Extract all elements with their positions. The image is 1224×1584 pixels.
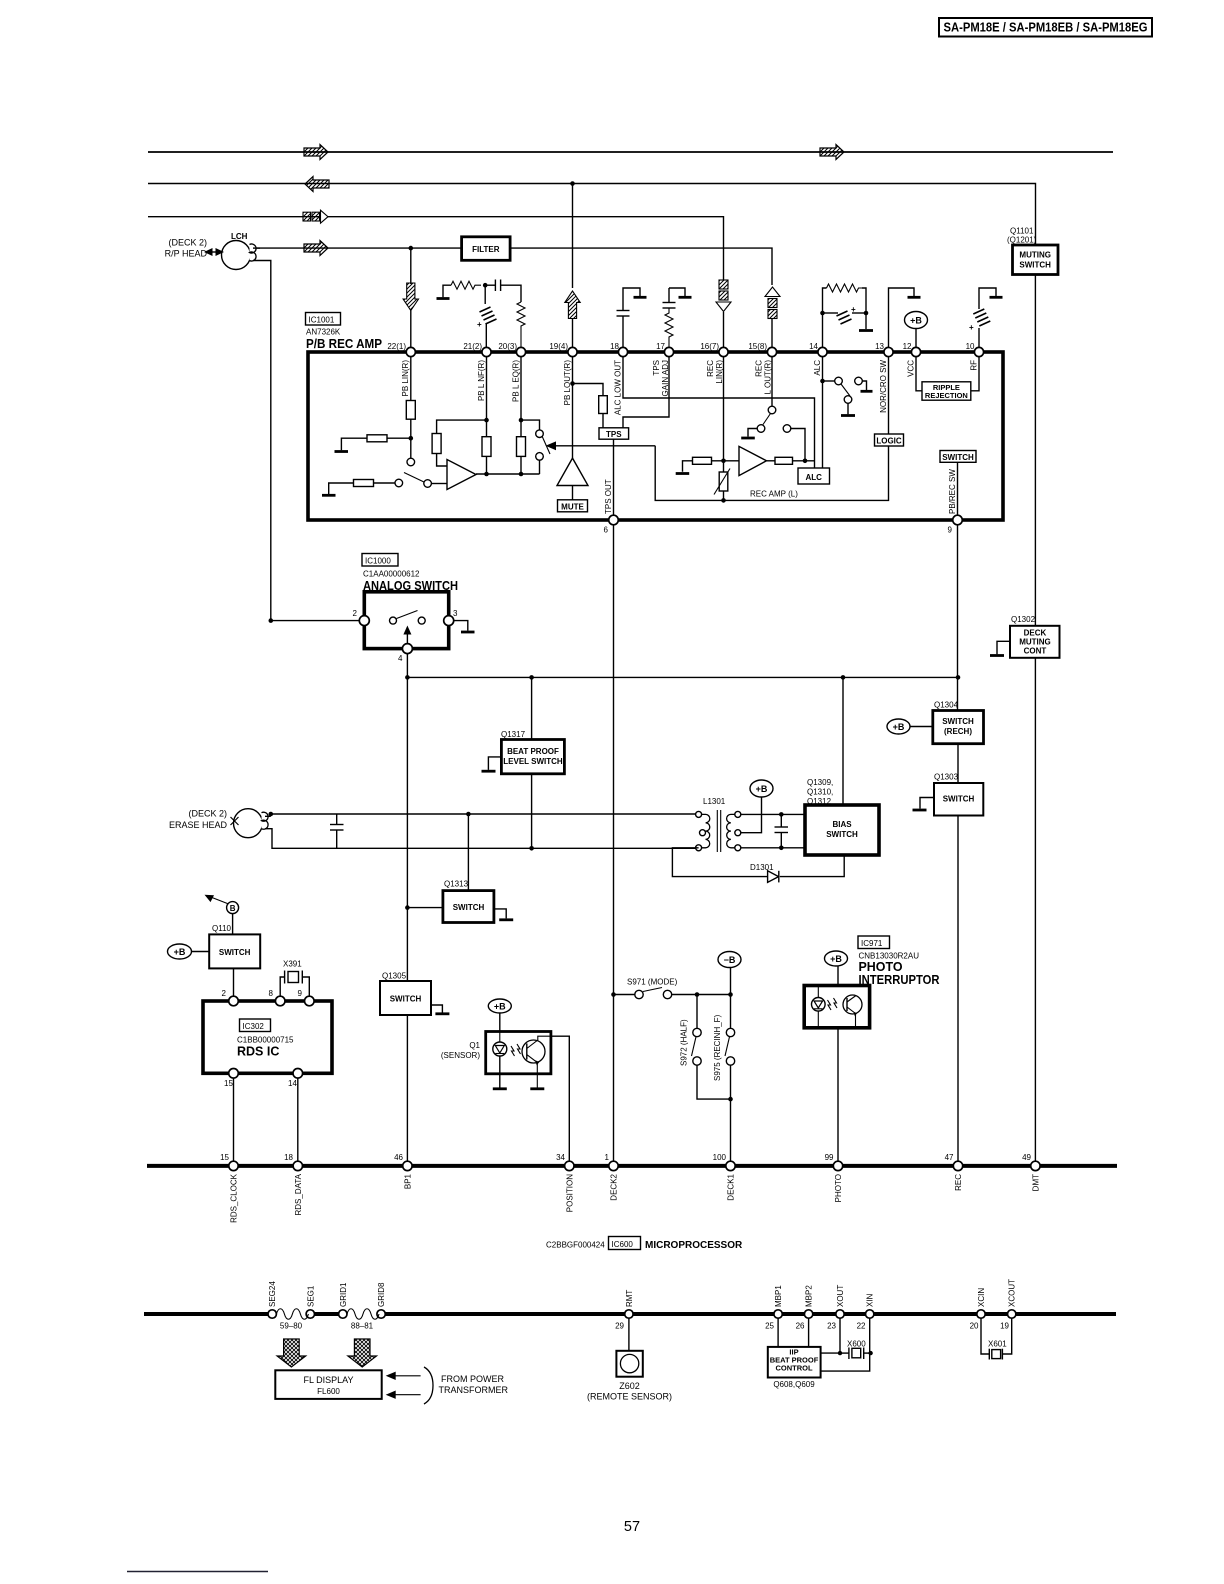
crystal X601 bbox=[981, 1318, 1012, 1359]
TPS control arrow bbox=[546, 441, 656, 450]
svg-text:2: 2 bbox=[353, 609, 358, 618]
svg-text:+B: +B bbox=[910, 316, 922, 326]
resistor to ground row2 bbox=[322, 480, 395, 496]
svg-text:LIN(R): LIN(R) bbox=[715, 360, 724, 384]
transistor Q1305 SWITCH bbox=[380, 972, 431, 1016]
svg-text:X600: X600 bbox=[847, 1340, 866, 1349]
node on line D at pin 22(1) branch bbox=[409, 246, 414, 251]
transistor Q110 SWITCH bbox=[209, 924, 260, 968]
IC1001 pin 19(4) bbox=[549, 342, 577, 357]
bus pin XCOUT 19 bbox=[1000, 1279, 1017, 1331]
model number box bbox=[939, 18, 1152, 37]
svg-text:(REMOTE SENSOR): (REMOTE SENSOR) bbox=[587, 1392, 672, 1402]
resistor (zigzag) above pin 21(2) bbox=[451, 281, 481, 289]
pin name REC LIN(R) bbox=[706, 360, 724, 384]
wire from line B down to pin 19(4) bbox=[572, 184, 574, 289]
FL display bus bbox=[144, 1312, 1116, 1316]
svg-text:4: 4 bbox=[398, 654, 403, 663]
IC1001 pin 6 bbox=[604, 515, 619, 534]
svg-text:+B: +B bbox=[893, 722, 905, 732]
resistor to ground REC in bbox=[676, 457, 739, 473]
transistor Q1317 BEAT PROOF LEVEL SWITCH bbox=[501, 730, 564, 774]
transistor Q1101 (Q1201) MUTING SWITCH bbox=[1007, 227, 1058, 275]
wire pin4 net down to Q1313 row bbox=[406, 677, 408, 981]
svg-text:D1301: D1301 bbox=[750, 863, 774, 872]
svg-text:C2BBGF000424: C2BBGF000424 bbox=[546, 1241, 605, 1250]
wire erase head top line bbox=[265, 814, 699, 816]
LED inside Q1 bbox=[493, 1032, 507, 1089]
svg-text:S972 (HALF): S972 (HALF) bbox=[680, 1019, 689, 1066]
wire pin2 to left rail bbox=[271, 620, 360, 622]
svg-text:PB LIN(R): PB LIN(R) bbox=[401, 360, 410, 397]
arrow power into FL display 1 bbox=[386, 1372, 421, 1380]
IC302 reference label bbox=[237, 1019, 294, 1059]
transistors Q1309/Q1310/Q1312 BIAS SWITCH box bbox=[805, 805, 879, 855]
svg-text:6: 6 bbox=[604, 526, 609, 535]
wire top bus line A bbox=[148, 151, 1113, 153]
resistor internal pin22 bbox=[406, 401, 415, 420]
svg-text:TPS: TPS bbox=[652, 360, 661, 376]
photo sensor Q1 box bbox=[486, 1032, 551, 1074]
svg-text:DECK: DECK bbox=[1024, 629, 1047, 638]
wire bottom loop via D1301 bbox=[672, 848, 844, 877]
svg-text:46: 46 bbox=[394, 1153, 403, 1162]
photo sensor Q1 labels bbox=[441, 1041, 481, 1060]
control stub Q1317 bbox=[482, 757, 502, 771]
svg-text:+: + bbox=[969, 323, 974, 332]
svg-text:TPS: TPS bbox=[606, 430, 622, 439]
resistor REC out bbox=[767, 457, 815, 464]
-B supply bbox=[718, 952, 741, 995]
hatched arrow down at pin 22(1) bbox=[403, 283, 418, 311]
node S972 rejoin bbox=[728, 1097, 733, 1102]
IC302 pin 9 bbox=[298, 989, 315, 1006]
arrow power into FL display 2 bbox=[386, 1391, 421, 1399]
phototransistor inside Q1 bbox=[522, 1036, 551, 1089]
svg-text:16(7): 16(7) bbox=[700, 342, 719, 351]
svg-text:FROM POWER: FROM POWER bbox=[441, 1374, 504, 1384]
svg-text:LEVEL SWITCH: LEVEL SWITCH bbox=[503, 757, 563, 766]
svg-text:Q608,Q609: Q608,Q609 bbox=[773, 1380, 815, 1389]
svg-text:L1301: L1301 bbox=[703, 797, 726, 806]
transformer L1301 bbox=[696, 810, 741, 852]
svg-text:BIAS: BIAS bbox=[832, 820, 852, 829]
svg-text:10: 10 bbox=[966, 342, 975, 351]
svg-text:SWITCH: SWITCH bbox=[390, 995, 422, 1004]
svg-text:X601: X601 bbox=[988, 1340, 1007, 1349]
op-amp U-a (PB amp) bbox=[447, 460, 476, 490]
svg-text:REC: REC bbox=[706, 360, 715, 377]
hatched arrow up at pin 15(8) bbox=[765, 287, 780, 347]
svg-text:RF: RF bbox=[970, 360, 979, 371]
wire MBP1 to beat proof box bbox=[777, 1318, 779, 1347]
svg-text:(DECK 2): (DECK 2) bbox=[188, 809, 227, 819]
RC loop at pin 14 bbox=[820, 284, 873, 347]
svg-text:9: 9 bbox=[948, 526, 953, 535]
node B with arrow bbox=[205, 895, 239, 914]
wire pin22 branch down with hatched arrow bbox=[410, 248, 412, 284]
IC1001 pin 16(7) bbox=[700, 342, 728, 357]
svg-text:8: 8 bbox=[269, 989, 274, 998]
FILTER box bbox=[462, 237, 511, 260]
bus pin 18 RDS_DATA bbox=[284, 1153, 303, 1216]
svg-text:R/P HEAD: R/P HEAD bbox=[165, 249, 208, 259]
svg-text:Q110: Q110 bbox=[212, 924, 232, 933]
arrow inside IC1000 from pin4 bbox=[403, 626, 411, 644]
resistor TPS feed bbox=[599, 396, 608, 414]
electrolytic cap at pin 21(2) bbox=[477, 285, 497, 347]
svg-text:BEAT PROOF: BEAT PROOF bbox=[507, 747, 559, 756]
svg-text:SA-PM18E / SA-PM18EB / SA-PM18: SA-PM18E / SA-PM18EB / SA-PM18EG bbox=[944, 21, 1148, 35]
node pin21 branch bbox=[484, 418, 489, 423]
svg-text:FL DISPLAY: FL DISPLAY bbox=[303, 1375, 353, 1385]
signal arrow on line C (boxes + open head) bbox=[303, 210, 328, 223]
footer rule bbox=[127, 1571, 268, 1573]
crystal X600 bbox=[840, 1318, 871, 1359]
IC1000 reference label bbox=[362, 554, 458, 594]
wire MBP2 to beat proof box bbox=[808, 1318, 810, 1347]
node output r2 bbox=[519, 472, 524, 477]
wire XIN down and into beat proof box bbox=[821, 1318, 870, 1371]
svg-text:12: 12 bbox=[903, 342, 912, 351]
svg-text:(Q1201): (Q1201) bbox=[1007, 236, 1037, 245]
bus pin XCIN 20 bbox=[970, 1288, 986, 1331]
switch contact row1 bbox=[407, 458, 415, 466]
IC1001 main box bbox=[308, 352, 1003, 520]
wire IC302 pin14 to bus bbox=[297, 1078, 299, 1161]
svg-text:RDS_CLOCK: RDS_CLOCK bbox=[230, 1173, 239, 1223]
svg-text:+: + bbox=[851, 305, 856, 314]
svg-text:TPS OUT: TPS OUT bbox=[604, 479, 613, 514]
signal arrow on line A left bbox=[304, 145, 328, 160]
IC302 pin 8 bbox=[269, 989, 285, 1006]
IC1001 pin 21(2) bbox=[463, 342, 491, 357]
wire pin 6 rail down to bus DECK2 bbox=[613, 525, 615, 1162]
ground hook at pin 13 bbox=[889, 288, 921, 347]
wire pin22 internal bbox=[410, 357, 412, 458]
resistor under pin20 bbox=[517, 420, 526, 474]
+B supply at IC971 bbox=[825, 951, 848, 986]
wire branch left to NF resistor bbox=[437, 420, 487, 466]
resistor (zigzag) above pin 20(3) bbox=[517, 302, 525, 347]
svg-text:34: 34 bbox=[556, 1153, 565, 1162]
svg-text:PB/REC SW: PB/REC SW bbox=[948, 469, 957, 514]
svg-text:Q1303: Q1303 bbox=[934, 773, 959, 782]
node beatproof/bottom line bbox=[529, 846, 534, 851]
IC302 box bbox=[203, 1001, 332, 1073]
wire pin 14 to ALC box bbox=[822, 357, 824, 468]
svg-text:SEG24: SEG24 bbox=[268, 1281, 277, 1307]
IC971 reference label bbox=[858, 936, 940, 987]
ALC box bbox=[798, 468, 830, 484]
svg-text:SWITCH: SWITCH bbox=[826, 830, 858, 839]
svg-text:SEG1: SEG1 bbox=[306, 1285, 315, 1307]
svg-text:POSITION: POSITION bbox=[565, 1174, 574, 1212]
control stub Q1303 bbox=[913, 798, 935, 811]
svg-text:C1BB00000715: C1BB00000715 bbox=[237, 1036, 294, 1045]
wire BP1 rail to bus pin 46 bbox=[406, 1015, 408, 1162]
node cap bottom bbox=[779, 846, 784, 851]
node pin22/resistor junction bbox=[409, 436, 414, 441]
svg-text:IC1001: IC1001 bbox=[309, 316, 335, 325]
node left rail erase head bbox=[269, 812, 274, 817]
electrolytic cap + ground at pin 10 bbox=[969, 288, 1003, 347]
bus pin 15 RDS_CLOCK bbox=[220, 1153, 238, 1223]
bus pin XIN 22 bbox=[857, 1293, 875, 1330]
svg-text:P/B REC AMP: P/B REC AMP bbox=[306, 336, 382, 351]
svg-text:IC600: IC600 bbox=[612, 1240, 634, 1249]
node pin4 net bias branch bbox=[841, 675, 846, 680]
node S972 branch bbox=[695, 992, 700, 997]
svg-text:IC1000: IC1000 bbox=[365, 557, 391, 566]
wire pin 12 to ripple box bbox=[916, 357, 922, 391]
wire pin 10 to ripple box bbox=[971, 357, 979, 391]
IC1001 pin 18 bbox=[610, 342, 628, 357]
svg-text:NOR/CRO SW: NOR/CRO SW bbox=[879, 360, 888, 413]
wire pin 19(4) internal to amp bbox=[572, 357, 574, 458]
svg-text:Q1304: Q1304 bbox=[934, 701, 959, 710]
svg-text:XCIN: XCIN bbox=[977, 1288, 986, 1307]
node RC net bbox=[483, 283, 488, 288]
svg-text:VCC: VCC bbox=[907, 360, 916, 377]
svg-text:SWITCH: SWITCH bbox=[453, 903, 485, 912]
svg-text:REJECTION: REJECTION bbox=[925, 391, 968, 400]
transistor Q1303 SWITCH bbox=[934, 773, 983, 816]
IC1000 pin 2 bbox=[353, 609, 370, 626]
op-amp U-b (REC amp) bbox=[739, 446, 767, 475]
svg-text:MICROPROCESSOR: MICROPROCESSOR bbox=[645, 1240, 743, 1251]
node pin14 switch branch bbox=[820, 379, 825, 384]
svg-text:Q1101: Q1101 bbox=[1010, 227, 1034, 236]
resistor NF bbox=[432, 434, 441, 454]
svg-text:15: 15 bbox=[220, 1153, 229, 1162]
IC302 pin 2 bbox=[222, 989, 239, 1006]
wire bias switch top to pin4 net bbox=[842, 677, 844, 805]
node DECK2 rail S971 branch bbox=[611, 992, 616, 997]
bus pin 34 POSITION bbox=[556, 1153, 574, 1212]
svg-text:(RECH): (RECH) bbox=[944, 727, 972, 736]
svg-text:SWITCH: SWITCH bbox=[942, 453, 974, 462]
wire Q1304 to Q1303 bbox=[957, 744, 959, 783]
svg-text:19: 19 bbox=[1000, 1322, 1009, 1331]
svg-text:MUTING: MUTING bbox=[1019, 638, 1051, 647]
svg-text:PHOTO: PHOTO bbox=[859, 960, 903, 974]
svg-text:+B: +B bbox=[494, 1002, 506, 1012]
svg-text:Q1305: Q1305 bbox=[382, 972, 407, 981]
svg-text:FL600: FL600 bbox=[317, 1387, 340, 1396]
svg-text:13: 13 bbox=[875, 342, 884, 351]
svg-text:XIN: XIN bbox=[866, 1293, 875, 1307]
switch S971 (MODE) bbox=[614, 978, 731, 999]
wire amp to MUTE box bbox=[572, 486, 574, 500]
svg-text:14: 14 bbox=[809, 342, 818, 351]
hatched arrow to FL display left bbox=[277, 1339, 306, 1367]
svg-text:Z602: Z602 bbox=[619, 1381, 640, 1391]
svg-text:LCH: LCH bbox=[231, 232, 248, 241]
svg-text:REC: REC bbox=[755, 360, 764, 377]
microprocessor label bbox=[546, 1237, 743, 1252]
svg-text:IC971: IC971 bbox=[861, 939, 883, 948]
svg-text:+B: +B bbox=[174, 947, 186, 957]
svg-text:RMT: RMT bbox=[625, 1290, 634, 1307]
IC1001 pin 20(3) bbox=[498, 342, 525, 357]
phototransistor inside IC971 bbox=[843, 995, 862, 1027]
RC network above pins 21/20 : ground bbox=[437, 285, 452, 298]
switch row2 bbox=[395, 473, 447, 488]
IC1000 pin 4 bbox=[398, 644, 412, 663]
node X600 left bbox=[838, 1351, 842, 1355]
wire Q1 output to bus pin 34 bbox=[551, 1036, 569, 1161]
bus pin SEG24 bbox=[268, 1281, 277, 1319]
bus pin 99 PHOTO bbox=[825, 1153, 843, 1202]
transistor Q1313 SWITCH bbox=[443, 880, 494, 923]
wire squiggle SEG24-SEG1 bbox=[276, 1309, 308, 1320]
hatched arrow down at pin 16(7) bbox=[716, 280, 731, 347]
svg-text:CONT: CONT bbox=[1024, 647, 1047, 656]
svg-text:GRID8: GRID8 bbox=[377, 1282, 386, 1307]
bus pin SEG1 bbox=[306, 1285, 315, 1318]
hatched arrow to FL display right bbox=[348, 1339, 377, 1367]
svg-text:IC302: IC302 bbox=[243, 1022, 265, 1031]
svg-text:ERASE HEAD: ERASE HEAD bbox=[169, 820, 228, 830]
wire B to Q110 bbox=[232, 914, 234, 935]
wire top bus line B bbox=[148, 184, 1036, 246]
diode D1301 bbox=[768, 871, 779, 883]
wire op-amp output line bbox=[476, 473, 540, 475]
+B supply at L1301 tap bbox=[741, 780, 773, 833]
wire arrow to pin 22(1) bbox=[410, 311, 412, 348]
node X600 right bbox=[868, 1351, 872, 1355]
bus pin 49 DMT bbox=[1022, 1153, 1040, 1191]
svg-text:−B: −B bbox=[724, 955, 736, 965]
svg-text:SWITCH: SWITCH bbox=[1019, 261, 1051, 270]
svg-text:57: 57 bbox=[624, 1519, 640, 1535]
svg-text:+: + bbox=[477, 320, 482, 329]
IC1001 pin 15(8) bbox=[748, 342, 776, 357]
svg-text:S971 (MODE): S971 (MODE) bbox=[627, 978, 678, 987]
erase head label bbox=[169, 809, 228, 831]
node -B branch bbox=[728, 992, 733, 997]
svg-text:49: 49 bbox=[1022, 1153, 1031, 1162]
+B supply at pin 12 bbox=[905, 312, 928, 348]
IC1001 pin 14 bbox=[809, 342, 827, 357]
wire TPS out to pin 6 bbox=[613, 439, 615, 515]
wire IC1000 pin4 net horizontal bbox=[407, 654, 958, 678]
R/P head label bbox=[165, 238, 208, 259]
node pin20 branch bbox=[519, 418, 524, 423]
brace from power transformer bbox=[424, 1367, 433, 1404]
IC1001 pin 12 bbox=[903, 342, 921, 357]
control stub Q1313 bbox=[494, 909, 513, 920]
svg-text:26: 26 bbox=[796, 1322, 805, 1331]
control stub Q1305 bbox=[431, 1005, 449, 1014]
svg-text:GRID1: GRID1 bbox=[339, 1282, 348, 1307]
FL DISPLAY FL600 box bbox=[275, 1370, 381, 1399]
svg-text:20: 20 bbox=[970, 1322, 979, 1331]
svg-text:9: 9 bbox=[298, 989, 303, 998]
svg-text:LOGIC: LOGIC bbox=[876, 437, 902, 446]
svg-text:15: 15 bbox=[224, 1079, 233, 1088]
svg-text:20(3): 20(3) bbox=[498, 342, 517, 351]
bus pin MBP1 25 bbox=[765, 1285, 783, 1331]
node pin19 branch to TPS bbox=[570, 381, 575, 386]
microprocessor bus bbox=[147, 1164, 1117, 1168]
wire DMT rail down from muting switch bbox=[1034, 275, 1036, 626]
svg-text:ALC: ALC bbox=[805, 473, 822, 482]
SWITCH box (PB/REC) bbox=[940, 451, 976, 463]
switch S972 (HALF) bbox=[680, 995, 731, 1100]
svg-text:+B: +B bbox=[830, 954, 842, 964]
node pin4 net beat-proof branch bbox=[529, 675, 534, 680]
svg-text:DMT: DMT bbox=[1031, 1174, 1040, 1191]
svg-text:DECK2: DECK2 bbox=[610, 1173, 619, 1200]
svg-text:SWITCH: SWITCH bbox=[942, 717, 974, 726]
svg-text:Q1302: Q1302 bbox=[1011, 615, 1036, 624]
remote sensor Z602 bbox=[587, 1318, 672, 1401]
svg-text:+B: +B bbox=[756, 784, 768, 794]
wire XOUT branch to beat proof box bbox=[821, 1352, 840, 1354]
svg-text:18: 18 bbox=[284, 1153, 293, 1162]
wire BP1 rail to Q1313 bbox=[407, 907, 443, 909]
capacitor across erase head bbox=[330, 814, 344, 848]
svg-text:Q1310,: Q1310, bbox=[807, 788, 833, 797]
node erase line Q1313 branch bbox=[466, 812, 471, 817]
hatched arrow up at pin 19(4) bbox=[565, 291, 580, 347]
IC302 pin 14 bbox=[288, 1069, 303, 1089]
svg-text:100: 100 bbox=[713, 1153, 727, 1162]
svg-text:(SENSOR): (SENSOR) bbox=[441, 1051, 480, 1060]
wire branch to TPS resistor bbox=[573, 384, 604, 428]
svg-text:PB L EQ(R): PB L EQ(R) bbox=[512, 360, 521, 402]
wire IC302 pin15 to bus bbox=[233, 1078, 235, 1161]
wire R/P head lower terminal down left rail bbox=[253, 261, 271, 621]
IC1001 pin 17 bbox=[656, 342, 674, 357]
svg-text:(DECK 2): (DECK 2) bbox=[168, 238, 207, 248]
svg-text:X391: X391 bbox=[283, 960, 302, 969]
svg-text:88–81: 88–81 bbox=[351, 1322, 374, 1331]
LOGIC box bbox=[875, 434, 904, 446]
LED inside IC971 bbox=[812, 987, 826, 1027]
switch EQ select bbox=[521, 420, 550, 474]
R/P head bidirectional arrow bbox=[204, 248, 224, 256]
svg-text:DECK1: DECK1 bbox=[727, 1173, 736, 1200]
svg-text:PB L NF(R): PB L NF(R) bbox=[477, 360, 486, 401]
svg-text:L OUT(R): L OUT(R) bbox=[764, 360, 773, 395]
+B supply at Q110 bbox=[168, 944, 210, 959]
IC1001 pin 22(1) bbox=[387, 342, 415, 357]
svg-text:Q1: Q1 bbox=[469, 1041, 480, 1050]
cap + resistor to ground at pin 17 bbox=[663, 288, 692, 347]
label FROM POWER TRANSFORMER bbox=[439, 1374, 509, 1395]
bus pin GRID8 bbox=[377, 1282, 386, 1318]
crystal X391 bbox=[280, 960, 309, 997]
node left rail / pin2 bbox=[269, 618, 274, 623]
op-amp mute (triangle up) bbox=[557, 458, 588, 485]
svg-text:MBP1: MBP1 bbox=[774, 1285, 783, 1307]
photo interruptor IC971 box bbox=[804, 986, 869, 1028]
IC1001 pin 13 bbox=[875, 342, 893, 357]
wire IC971 to bus pin 99 bbox=[837, 1028, 839, 1162]
wire beat-proof branch down bbox=[531, 677, 533, 848]
svg-text:BP1: BP1 bbox=[403, 1173, 412, 1189]
node output r1 bbox=[484, 472, 489, 477]
switch inside IC1000 bbox=[390, 611, 426, 625]
resistor to ground row1 bbox=[335, 435, 411, 452]
node pin4 net left corner bbox=[405, 675, 410, 680]
transistor Q1302 DECK MUTING CONT bbox=[1010, 615, 1060, 658]
switch S975 (RECINH_F) bbox=[713, 995, 735, 1162]
R/P head symbol bbox=[222, 241, 257, 270]
